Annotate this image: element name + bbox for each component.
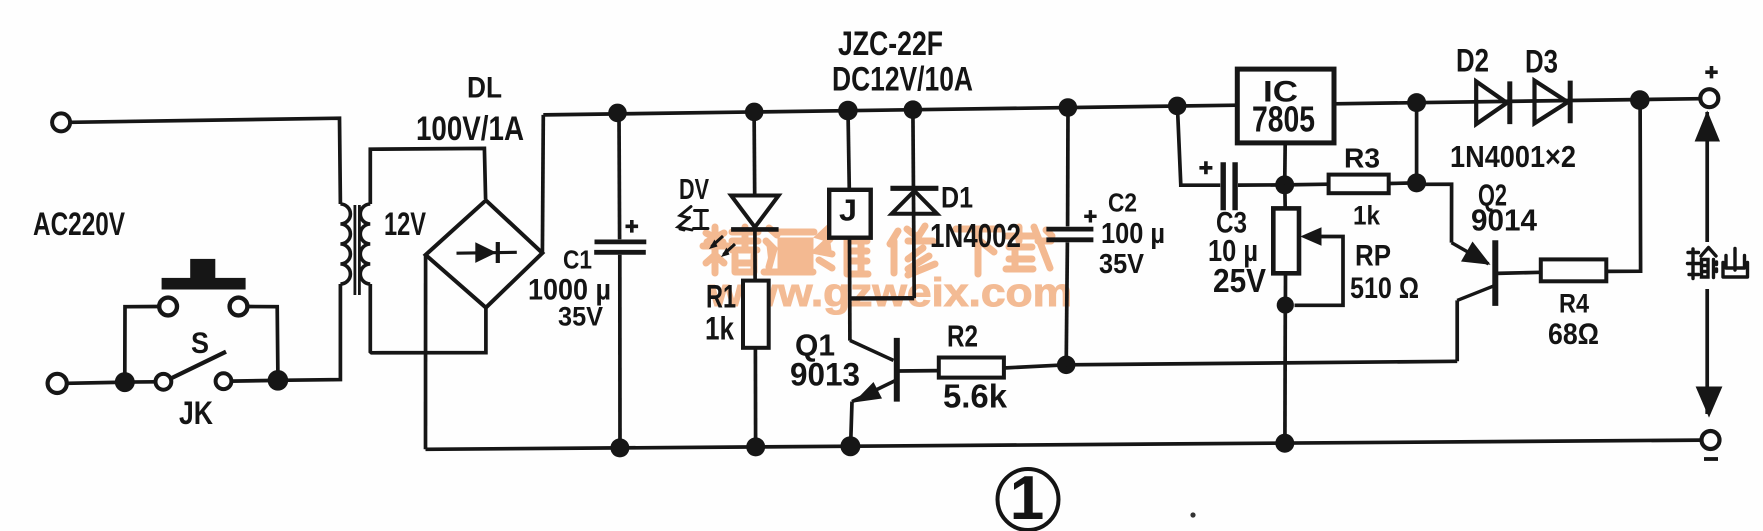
node R2/C2/Q2 junction dot	[1057, 356, 1076, 375]
C1 plus sign	[626, 220, 639, 233]
wire switch right contact to node B	[231, 379, 270, 383]
capacitor C3	[1177, 106, 1220, 185]
bridge rectifier diamond	[426, 200, 543, 307]
C2 plus sign	[1084, 210, 1096, 222]
output minus sign	[1704, 457, 1718, 461]
wire R3 node to Q2 collector	[1417, 184, 1452, 242]
output plus terminal	[1700, 89, 1718, 107]
svg-text:1N4001×2: 1N4001×2	[1450, 139, 1576, 174]
node B junction dot	[268, 370, 289, 391]
pushbutton JK left pin	[159, 298, 177, 316]
resistor R4	[1541, 259, 1607, 281]
label hong (red) chinese char	[678, 207, 708, 231]
pushbutton JK right pin	[230, 298, 248, 316]
IC U1 7805 box	[1237, 69, 1334, 143]
svg-text:DC12V/10A: DC12V/10A	[832, 61, 973, 99]
capacitor C1	[617, 114, 621, 240]
C3 plus sign	[1199, 161, 1212, 174]
svg-text:C2: C2	[1108, 188, 1137, 218]
wire bridge minus to bottom bus	[424, 255, 428, 449]
diode D3	[1535, 81, 1568, 124]
label shuchu (output) chinese chars	[1688, 248, 1748, 279]
input terminal top-left	[52, 113, 70, 131]
pushbutton JK cap	[190, 259, 215, 279]
svg-text:35V: 35V	[1099, 248, 1144, 279]
wire node A to switch left contact	[125, 380, 156, 384]
diode D2	[1476, 81, 1507, 124]
svg-text:DL: DL	[467, 72, 502, 105]
output arrow up head	[1695, 111, 1720, 142]
scan speck	[1190, 512, 1195, 517]
relay coil J	[848, 111, 849, 190]
bridge inner diode	[457, 251, 517, 255]
IC ground pin	[1283, 143, 1287, 185]
svg-text:68Ω: 68Ω	[1548, 318, 1599, 351]
svg-text:510 Ω: 510 Ω	[1350, 272, 1419, 305]
resistor R3	[1285, 182, 1329, 186]
bottom bus wire	[426, 440, 1702, 449]
svg-text:R3: R3	[1344, 143, 1380, 174]
svg-text:JK: JK	[179, 395, 213, 431]
capacitor C2	[1066, 108, 1070, 227]
wire bridge plus to top bus	[541, 115, 546, 253]
RP bottom junction dot	[1277, 297, 1294, 314]
wire D1 to relay bottom	[849, 296, 915, 301]
svg-text:1k: 1k	[705, 311, 734, 347]
transformer DL core	[353, 205, 356, 295]
svg-text:J: J	[839, 193, 857, 228]
transformer DL primary winding	[340, 204, 350, 284]
wire R3 node to top bus	[1415, 103, 1419, 183]
svg-text:9014: 9014	[1471, 203, 1538, 238]
figure number circled 1	[998, 469, 1059, 530]
input terminal bottom-left	[48, 374, 67, 393]
svg-text:1: 1	[1010, 464, 1044, 531]
junction dots on top bus	[608, 90, 1649, 517]
svg-text:7805: 7805	[1252, 99, 1315, 140]
svg-text:S: S	[191, 327, 209, 360]
node R3 right junction dot	[1407, 173, 1426, 192]
svg-text:D3: D3	[1525, 44, 1558, 80]
svg-text:R1: R1	[706, 279, 736, 315]
svg-text:D2: D2	[1456, 43, 1489, 79]
svg-text:R4: R4	[1559, 289, 1589, 319]
svg-text:25V: 25V	[1213, 262, 1266, 299]
svg-text:R2: R2	[947, 319, 978, 354]
output arrow shaft	[1705, 112, 1709, 242]
watermark chinese characters 精通维修下载	[703, 225, 1052, 275]
wire button left pin to node A	[125, 307, 159, 378]
switch S blade	[171, 352, 227, 379]
svg-text:DV: DV	[679, 174, 709, 206]
svg-text:D1: D1	[941, 182, 973, 215]
wire bottom-left terminal to node A	[67, 381, 115, 386]
wire secondary bottom to bridge bottom	[370, 284, 486, 353]
svg-text:AC220V: AC220V	[33, 206, 125, 242]
svg-text:JZC-22F: JZC-22F	[838, 25, 943, 63]
junction dots on bottom bus	[610, 438, 629, 457]
node A junction dot	[115, 372, 135, 392]
LED DV	[752, 112, 756, 196]
transistor Q2	[1492, 240, 1498, 306]
svg-text:1k: 1k	[1353, 201, 1381, 231]
resistor R2	[939, 358, 1004, 378]
svg-text:12V: 12V	[384, 206, 426, 242]
wire secondary top to bridge top	[370, 148, 485, 204]
svg-text:C1: C1	[563, 245, 592, 275]
top bus wire right of IC	[1334, 99, 1701, 104]
wire RP to bottom bus	[1283, 305, 1287, 443]
potentiometer RP	[1283, 185, 1287, 209]
svg-text:1N4002: 1N4002	[930, 217, 1021, 254]
transistor Q1	[850, 340, 894, 360]
wire node to Q2 emitter	[1066, 361, 1457, 365]
switch S right contact	[216, 373, 232, 389]
diode D1	[913, 110, 914, 299]
output arrow down head	[1696, 387, 1723, 418]
top bus wire left of IC	[543, 105, 1237, 115]
wire node B to transformer primary bottom	[278, 284, 341, 380]
svg-text:RP: RP	[1355, 240, 1391, 273]
svg-text:5.6k: 5.6k	[943, 378, 1008, 415]
RP wiper arrow	[1300, 227, 1321, 246]
svg-text:35V: 35V	[558, 302, 603, 332]
node C3/IC/R3/RP junction dot	[1275, 175, 1294, 194]
resistor R1	[753, 232, 757, 281]
output plus sign	[1705, 66, 1717, 78]
svg-text:100 µ: 100 µ	[1101, 218, 1165, 250]
switch S left contact	[156, 374, 172, 390]
svg-text:100V/1A: 100V/1A	[416, 110, 524, 148]
output minus terminal	[1702, 431, 1720, 449]
transformer DL secondary winding	[360, 204, 370, 284]
wire button right pin to node B	[247, 307, 278, 376]
svg-text:9013: 9013	[790, 357, 860, 393]
wire top-left to transformer primary	[70, 118, 340, 204]
